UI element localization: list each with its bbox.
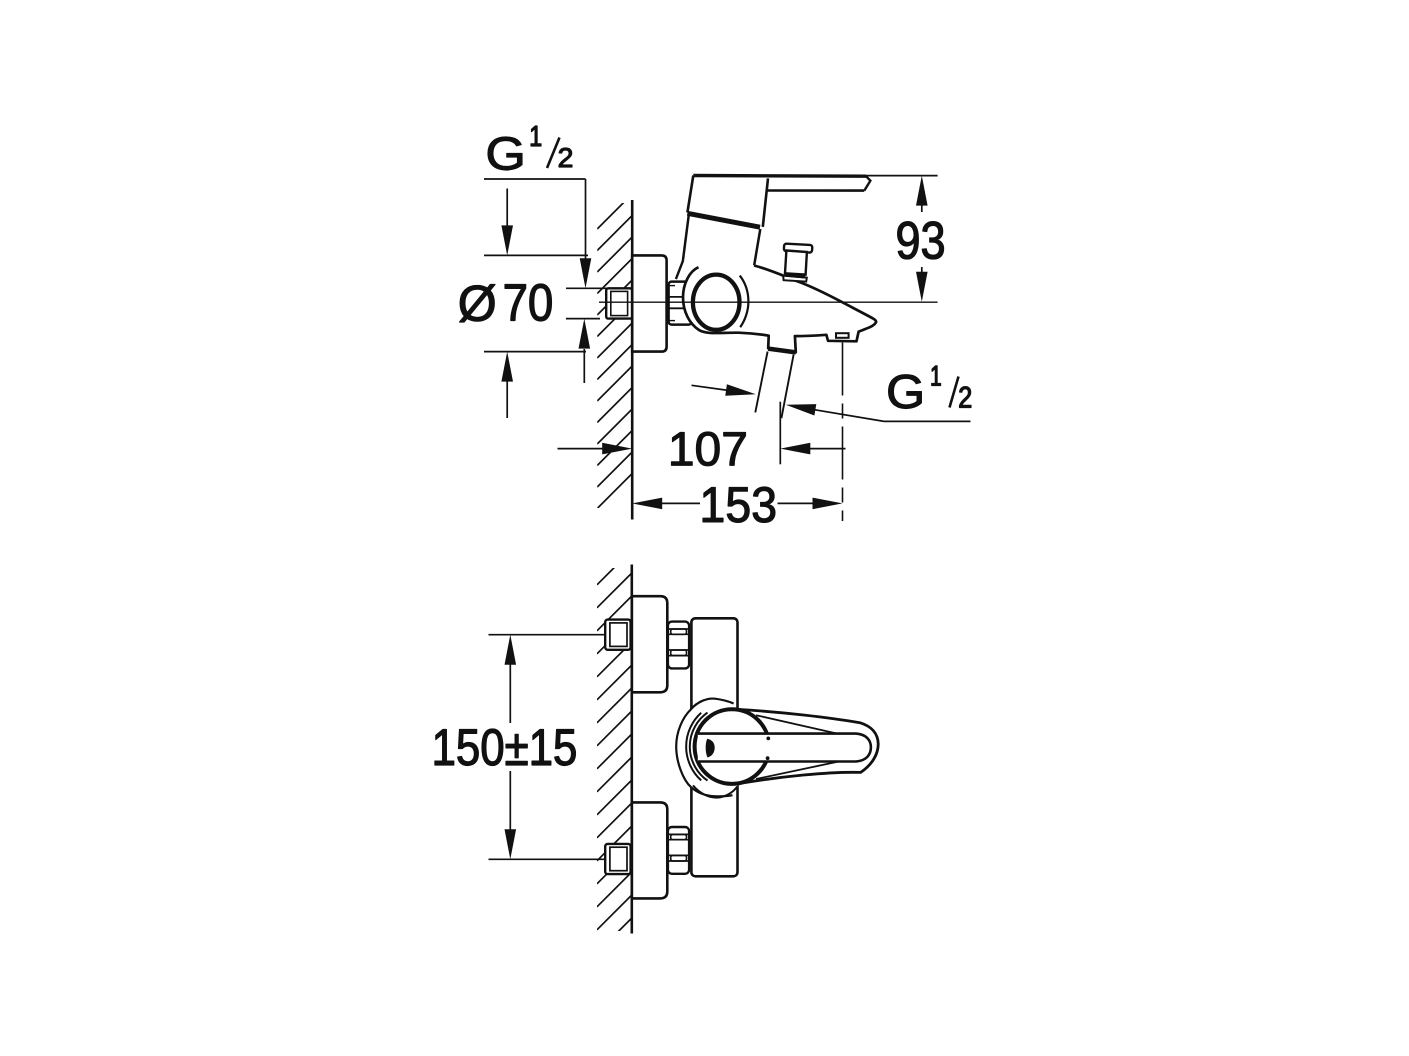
diameter 70 arrows: [506, 189, 508, 229]
shower outlet stub thick base line: [768, 349, 796, 353]
lower supply square union (front view): [605, 844, 630, 874]
wall line (front view): [630, 565, 633, 934]
G 1/2 shower outlet thread lines: [755, 352, 767, 413]
temperature indicator blob: [706, 739, 715, 758]
diameter 70 label: [460, 285, 496, 323]
107 label: [672, 432, 746, 466]
thread bottom arrow: [583, 349, 585, 383]
153 label: [703, 487, 775, 522]
diameter 70 extension lines: [484, 254, 588, 256]
cartridge neck below handle: [683, 216, 760, 266]
handle skirt edge over hex nut: [676, 260, 683, 279]
lever handle (side view): [687, 176, 870, 227]
centre axis line: [599, 301, 938, 303]
wall hatching (front view): [597, 550, 632, 953]
upper escutcheon (front view): [632, 596, 668, 692]
G 1/2 right label: [889, 375, 922, 409]
handle seam line: [687, 213, 760, 227]
153 dimension line: [632, 498, 662, 510]
G 1/2 top-left label: [488, 137, 522, 170]
thread extension lines: [566, 287, 610, 289]
lever front slot: [698, 734, 871, 762]
ball joint ring (side view): [693, 275, 740, 330]
wall escutcheon flange O70 (side view): [632, 255, 666, 351]
shower outlet extension line: [779, 402, 781, 465]
lower union hex nut (front view): [668, 827, 689, 874]
aerator screen on spout: [836, 333, 849, 338]
spout outlet dashed centre line: [842, 343, 844, 522]
93 dimension arrows: [916, 176, 928, 206]
lever taper lines: [756, 715, 840, 734]
wall hatching (side view): [597, 194, 632, 509]
arrow to thread top: [580, 258, 592, 288]
93 extension line: [864, 175, 938, 177]
crossing dots: [766, 737, 770, 741]
lever dome escutcheon (front view): [676, 699, 737, 798]
diverter knob: [783, 244, 812, 282]
union hex nut (side view): [669, 282, 692, 325]
body end cap arc: [740, 276, 749, 328]
wall line (side view): [631, 200, 634, 520]
G 1/2 inlet square union (side view): [606, 288, 632, 318]
93 label: [898, 222, 944, 260]
lever ball circle (front view): [695, 709, 770, 784]
lower escutcheon (front view): [632, 802, 668, 898]
150 pm 15 label: [435, 729, 576, 766]
body cylinder (front view): [691, 618, 737, 876]
107 dimension line: [558, 448, 605, 450]
150 pm 15 dimension line and arrows: [505, 635, 517, 665]
G 1/2 top-left leader line: [484, 178, 586, 180]
lever blade (front view): [738, 709, 879, 783]
dome rings: [690, 713, 708, 781]
upper union hex nut (front view): [668, 622, 689, 669]
G 1/2 right leader with arrows: [884, 420, 971, 422]
upper supply square union (front view): [605, 620, 630, 650]
150 pm 15 extension lines: [489, 634, 606, 636]
faucet body with spout (side view): [683, 264, 876, 353]
